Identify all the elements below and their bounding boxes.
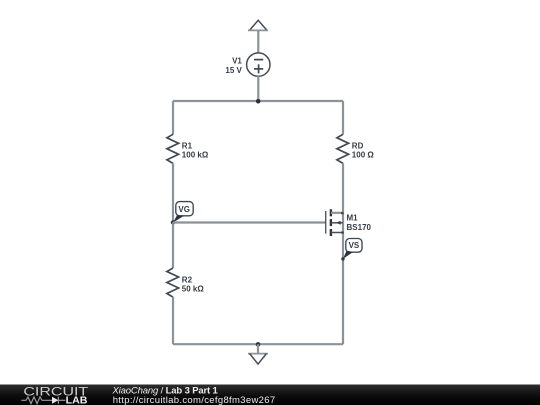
wire bottom horizontal (173, 343, 343, 345)
svg-text:R2: R2 (182, 275, 193, 284)
svg-text:100 Ω: 100 Ω (352, 151, 375, 160)
logo CIRCUIT LAB (21, 384, 89, 405)
svg-text:100 kΩ: 100 kΩ (182, 151, 209, 160)
resistor R2 (167, 268, 179, 297)
wire gate (VG to M1) (173, 221, 326, 223)
label V1 15 V (225, 57, 242, 75)
wire power to V1 (257, 30, 259, 53)
node VG junction (171, 220, 175, 224)
svg-text:VG: VG (178, 205, 190, 214)
svg-text:R1: R1 (182, 142, 193, 151)
wire R2 to bottom rail (172, 297, 174, 344)
label R1 100 kΩ (182, 142, 209, 160)
label RD 100 Ω (352, 142, 375, 160)
wire V1 to top node (257, 76, 259, 101)
resistor R1 (167, 134, 179, 163)
url (113, 395, 276, 405)
svg-text:15 V: 15 V (225, 66, 242, 75)
svg-text:http://circuitlab.com/cefg8fm3: http://circuitlab.com/cefg8fm3ew267 (113, 395, 276, 405)
resistor RD (337, 134, 349, 163)
wire VG node to R2 (172, 223, 174, 269)
wire top horizontal (173, 100, 343, 102)
svg-text:RD: RD (352, 142, 364, 151)
svg-text:50 kΩ: 50 kΩ (182, 284, 205, 293)
wire left rail upper (172, 101, 174, 134)
title XiaoChang / Lab 3 Part 1 (112, 386, 219, 397)
voltage source V1 (247, 53, 270, 76)
wire right rail lower (342, 163, 344, 344)
wire right rail upper (342, 101, 344, 134)
power flag V+ (248, 20, 268, 30)
svg-text:V1: V1 (232, 57, 242, 66)
footer bar (0, 385, 540, 405)
wire R1 to VG node (172, 163, 174, 222)
transistor M1 (NMOS) (326, 209, 344, 236)
svg-text:BS170: BS170 (347, 223, 372, 232)
svg-text:VS: VS (349, 241, 360, 250)
net label VG (173, 202, 193, 223)
svg-text:M1: M1 (347, 214, 359, 223)
svg-text:LAB: LAB (66, 396, 88, 405)
net label VS (341, 239, 362, 261)
ground (248, 342, 268, 364)
node junction top (256, 99, 261, 104)
label M1 BS170 (347, 214, 372, 233)
label R2 50 kΩ (182, 275, 205, 293)
